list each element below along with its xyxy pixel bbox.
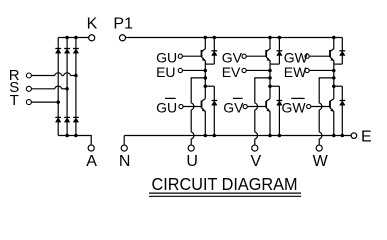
diode DV2 free-wheel lower V — [277, 86, 283, 135]
wire to DU2 cathode — [205, 85, 214, 87]
node bottom rail / leg3 — [74, 134, 78, 138]
wire S to leg2 hopping leg 1 — [32, 86, 68, 89]
node DU1 cathode / top rail — [213, 36, 217, 40]
node phase V junction — [268, 76, 272, 80]
svg-text:K: K — [87, 15, 98, 32]
transistor QW1 upper collector — [330, 38, 334, 52]
title double underline — [149, 193, 301, 196]
node bottom rail / leg2 — [65, 134, 69, 138]
wire V midpoint — [269, 64, 271, 99]
node top rail / leg2 — [65, 36, 69, 40]
wire phase W tap — [319, 78, 334, 103]
transistor QV1 upper collector — [266, 38, 270, 52]
terminal GW-bar — [307, 104, 311, 108]
svg-text:EU: EU — [156, 64, 175, 80]
svg-text:V: V — [250, 153, 261, 170]
transistor QW1 emitter with arrow — [330, 57, 334, 64]
node DV2 anode / bottom rail — [278, 134, 282, 138]
node EV junction — [268, 69, 272, 73]
diode D1 upper rectifier leg 1 — [55, 49, 61, 54]
label GW-bar with overline — [282, 98, 307, 115]
terminal V — [252, 145, 258, 151]
terminal T — [26, 100, 31, 105]
terminal R — [26, 73, 31, 78]
transistor QU2 emitter with arrow — [202, 108, 206, 136]
wire inverter bottom rail N to E — [124, 135, 351, 137]
svg-text:EV: EV — [222, 64, 241, 80]
wire T to leg1 — [32, 101, 59, 103]
svg-text:P1: P1 — [113, 15, 133, 32]
terminal W — [316, 145, 322, 151]
node QU2 emitter / bottom rail — [204, 134, 208, 138]
wire phase U drop hopping gate wire and bottom rail — [191, 103, 194, 145]
node lower diode W junction — [332, 84, 336, 88]
transistor QU1 upper collector — [202, 38, 206, 52]
terminal EW — [305, 68, 309, 72]
terminal GW — [305, 54, 309, 58]
terminal U — [188, 145, 194, 151]
wire rectifier leg 3 — [75, 38, 77, 136]
label GW — [284, 49, 309, 65]
node QW1 collector / top rail — [332, 36, 336, 40]
wire to DW2 cathode — [334, 85, 343, 87]
wire phase U tap — [191, 78, 205, 103]
wire phase V tap — [255, 78, 270, 103]
diode DW2 free-wheel lower W — [339, 86, 345, 135]
node DW2 anode / bottom rail — [341, 134, 345, 138]
wire phase V drop hopping gate wire and bottom rail — [255, 103, 258, 145]
wire gate GV to QV1 — [246, 55, 266, 57]
node phase U junction — [204, 76, 208, 80]
transistor QW1 base bar — [329, 50, 331, 57]
diode D3 upper rectifier leg 3 — [73, 49, 79, 54]
terminal E — [351, 133, 357, 139]
label P1 — [113, 15, 133, 32]
wire rectifier leg 1 — [57, 38, 59, 136]
node QV2 emitter / bottom rail — [268, 134, 272, 138]
node phase W junction — [332, 76, 336, 80]
node DU2 anode / bottom rail — [213, 134, 217, 138]
terminal A — [88, 145, 94, 151]
wire rectifier leg 2 — [66, 38, 68, 136]
label EW — [284, 64, 307, 80]
label R — [9, 67, 20, 84]
node QW2 emitter / bottom rail — [332, 134, 336, 138]
wire R to leg3 hopping legs 1 and 2 — [32, 73, 76, 76]
svg-text:GW: GW — [282, 99, 307, 115]
label title CIRCUIT DIAGRAM — [152, 174, 298, 194]
node T / leg1 — [56, 100, 60, 104]
terminal S — [26, 86, 31, 91]
diode DW1 free-wheel upper W — [334, 38, 345, 65]
transistor QV2 emitter with arrow — [266, 108, 270, 136]
label A — [86, 153, 97, 170]
wire U midpoint — [204, 64, 206, 99]
svg-text:A: A — [86, 153, 97, 170]
transistor QW2 emitter with arrow — [330, 108, 334, 136]
svg-text:N: N — [119, 153, 131, 170]
terminal GU-bar — [179, 104, 183, 108]
label T — [10, 92, 19, 109]
transistor QU1 emitter with arrow — [202, 57, 206, 64]
label N — [119, 153, 131, 170]
label K — [87, 15, 98, 32]
label GU-bar with overline — [156, 98, 177, 115]
wire emitter sense EV — [246, 69, 270, 71]
transistor QW2 lower collector — [330, 99, 334, 102]
node S / leg2 — [65, 87, 69, 91]
svg-text:E: E — [361, 129, 372, 146]
wire gate GW-bar to QW2 — [311, 106, 330, 108]
diode D5 lower rectifier leg 2 — [64, 117, 70, 122]
transistor QU2 base bar — [201, 101, 203, 108]
wire phase W drop hopping gate wire and bottom rail — [319, 103, 322, 145]
diode DV1 free-wheel upper V — [270, 38, 282, 65]
wire N stub — [123, 136, 125, 146]
terminal EV — [242, 68, 246, 72]
transistor QU2 lower collector — [202, 99, 206, 102]
node QU1 collector / top rail — [204, 36, 208, 40]
terminal GV — [242, 54, 246, 58]
wire emitter sense EU — [182, 69, 205, 71]
node EW junction — [332, 69, 336, 73]
wire W midpoint — [333, 64, 335, 99]
node top rail / leg3 — [74, 36, 78, 40]
wire rectifier top rail to terminal K — [58, 37, 88, 39]
terminal N — [121, 145, 127, 151]
terminal GU — [178, 54, 182, 58]
label V — [250, 153, 261, 170]
diode DU1 free-wheel upper U — [205, 38, 217, 65]
wire to DV2 cathode — [270, 85, 279, 87]
svg-text:EW: EW — [284, 64, 307, 80]
transistor QV1 base bar — [265, 50, 267, 57]
node DV1 cathode / top rail — [278, 36, 282, 40]
label GU — [156, 49, 177, 65]
label W — [313, 153, 329, 170]
wire gate GU-bar to QU2 — [183, 106, 201, 108]
transistor QV2 base bar — [265, 101, 267, 108]
wire inverter top rail from P1 — [126, 37, 343, 39]
label S — [9, 79, 19, 96]
diode DU2 free-wheel lower U — [211, 86, 217, 135]
wire gate GV-bar to QV2 — [247, 106, 266, 108]
wire rectifier bottom rail to terminal A — [58, 136, 91, 145]
label EU — [156, 64, 175, 80]
diode D2 upper rectifier leg 2 — [64, 49, 70, 54]
terminal K — [89, 35, 95, 41]
transistor QW2 base bar — [329, 101, 331, 108]
diode D4 lower rectifier leg 1 — [55, 117, 61, 122]
node QV1 collector / top rail — [268, 36, 272, 40]
svg-text:CIRCUIT DIAGRAM: CIRCUIT DIAGRAM — [152, 174, 298, 194]
wire gate GU to QU1 — [182, 55, 201, 57]
transistor QU1 base bar — [201, 50, 203, 57]
transistor QV1 emitter with arrow — [266, 57, 270, 64]
svg-text:GV: GV — [223, 99, 244, 115]
terminal P1 — [119, 35, 125, 41]
svg-text:T: T — [10, 92, 19, 109]
wire gate GW to QW1 — [309, 55, 330, 57]
node EU junction — [204, 69, 208, 73]
transistor QV2 lower collector — [266, 99, 270, 102]
svg-text:GU: GU — [156, 99, 177, 115]
terminal GV-bar — [243, 104, 247, 108]
label U — [186, 153, 198, 170]
svg-text:U: U — [186, 153, 198, 170]
label GV-bar with overline — [223, 98, 244, 115]
label GV — [222, 49, 243, 65]
node R / leg3 — [74, 74, 78, 78]
label E — [361, 129, 372, 146]
diode D6 lower rectifier leg 3 — [73, 117, 79, 122]
node lower diode U junction — [204, 84, 208, 88]
node lower diode V junction — [268, 84, 272, 88]
svg-text:W: W — [313, 153, 329, 170]
terminal EU — [178, 68, 182, 72]
wire emitter sense EW — [309, 69, 334, 71]
label EV — [222, 64, 241, 80]
